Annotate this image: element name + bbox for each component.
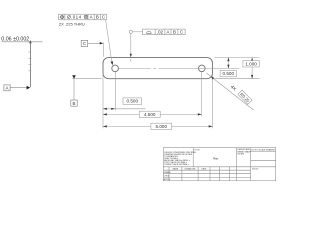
extension line left edge down [102,74,104,129]
datum B [71,75,77,106]
dimension 0.500 (left edge to hole H1) [103,98,146,110]
extension line bottom edge right [215,78,260,80]
profile of surface symbol [147,31,152,33]
all-around circle on FCF2 leader [132,31,142,33]
svg-text:.014: .014 [71,15,82,20]
note 4X R0.25 (rotated) [230,83,252,105]
svg-text:DO NOT SCALE DRAWING: DO NOT SCALE DRAWING [251,149,275,152]
svg-text:A: A [6,86,9,91]
svg-text:0.06 ±0.002: 0.06 ±0.002 [1,36,29,42]
svg-text:THREE PLACE DECIMAL ±: THREE PLACE DECIMAL ± [164,163,190,166]
title block table headers [173,168,208,171]
extension line hole center right [205,67,239,69]
extension line hole H2 center down [201,72,203,116]
MMC modifier [84,15,88,19]
svg-text:DRAWN: DRAWN [164,171,171,174]
dimension 5.000 (overall length) [103,123,213,129]
extension line hole H1 center down [115,72,117,111]
svg-text:DATE: DATE [202,168,208,171]
svg-text:A: A [90,15,93,20]
leader FCF2 to top edge [130,33,132,56]
FCF1 position tolerance frame [59,14,107,20]
svg-text:TITLE:: TITLE: [194,149,200,151]
hole H1 (left, .225 THRU) [112,65,119,72]
extension line bottom edge left (to datum B) [72,78,101,80]
diameter symbol [67,16,70,19]
svg-text:1.000: 1.000 [245,61,257,66]
centerline between holes [118,67,205,69]
title block row labels [164,171,171,181]
svg-text:M: M [85,15,88,19]
datum C [81,40,103,57]
svg-text:2X .225 THRU: 2X .225 THRU [59,21,85,26]
svg-text:SIGNATURE: SIGNATURE [185,168,197,171]
FCF2 profile tolerance frame [143,29,186,34]
dimension 1.000 (plate height) [243,58,259,79]
title block notes text [164,152,197,166]
svg-text:C: C [180,30,183,35]
svg-text:APPV'D: APPV'D [164,178,171,181]
position symbol [61,15,64,18]
datum A [4,85,30,91]
svg-text:B: B [173,30,176,35]
dimension 4.500 (left edge to hole H2) [103,111,202,117]
svg-text:0.500: 0.500 [223,71,235,76]
leader from FCF1 to hole H1 [106,20,113,64]
svg-text:4.500: 4.500 [144,112,156,117]
part outline (plate 5.000 x 1.000, R0.25 corners) [103,58,213,79]
leader 4X R0.25 [206,73,253,110]
dimension 0.500 (top edge to hole center, right side) [220,58,236,77]
svg-text:B: B [96,15,99,20]
svg-text:C: C [83,41,86,46]
extension line right edge down [212,74,214,129]
svg-text:DWG NO.: DWG NO. [252,168,259,170]
svg-text:0.500: 0.500 [127,99,139,104]
title block deburr cell [238,148,252,155]
svg-text:NAME: NAME [173,168,179,171]
edge view line with stitch ticks [29,42,31,88]
svg-text:C: C [102,15,105,20]
title block frame [163,148,275,181]
svg-text:.02: .02 [157,30,164,35]
svg-text:5.000: 5.000 [156,124,168,129]
extension line top edge right [215,57,260,59]
svg-text:A: A [167,30,170,35]
svg-text:B: B [73,101,76,106]
svg-text:EDGES: EDGES [238,154,245,156]
svg-text:CHK'D: CHK'D [164,176,170,178]
svg-text:Plate: Plate [213,157,219,160]
hole H2 (right, .225 THRU) [199,65,206,72]
